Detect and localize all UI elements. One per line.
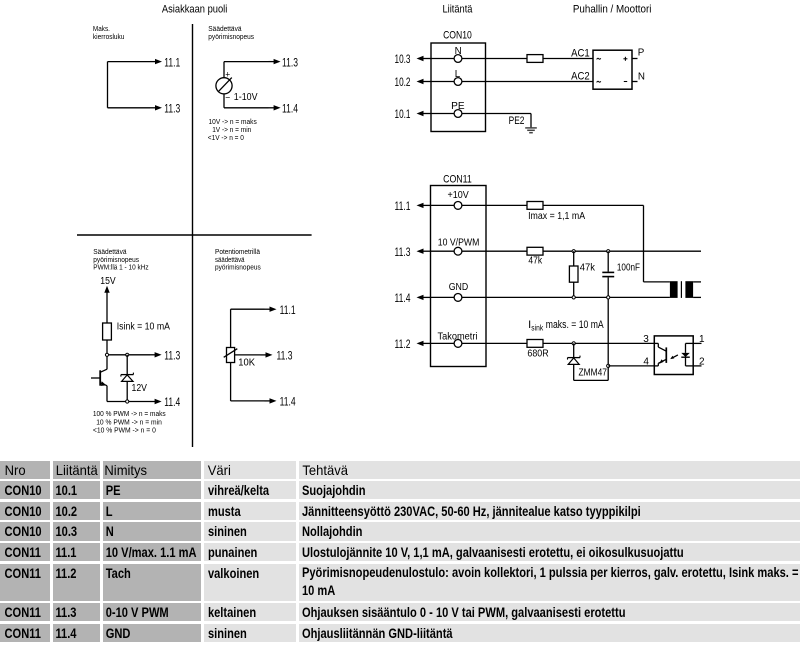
svg-text:11.2: 11.2: [395, 337, 411, 351]
svg-text:+10V: +10V: [448, 190, 470, 201]
svg-text:Imax = 1,1 mA: Imax = 1,1 mA: [528, 210, 585, 222]
svg-text:N: N: [455, 46, 462, 57]
svg-text:GND: GND: [449, 282, 468, 293]
svg-text:10.3: 10.3: [395, 52, 411, 66]
svg-text:Potentiometrillä: Potentiometrillä: [215, 249, 260, 256]
svg-text:10.2: 10.2: [395, 75, 411, 89]
svg-text:maks. = 10 mA: maks. = 10 mA: [546, 319, 604, 331]
svg-text:47k: 47k: [580, 262, 596, 274]
svg-text:11.3: 11.3: [282, 55, 298, 69]
svg-text:Säädettävä: Säädettävä: [208, 26, 241, 33]
svg-text:<10 % PWM -> n = 0: <10 % PWM -> n = 0: [93, 428, 156, 435]
svg-text:1-10V: 1-10V: [234, 91, 258, 103]
svg-text:kierrosluku: kierrosluku: [93, 34, 125, 41]
svg-text:10.1: 10.1: [395, 107, 411, 121]
svg-text:11.4: 11.4: [280, 395, 296, 409]
svg-text:10K: 10K: [238, 357, 255, 369]
svg-text:<1V -> n = 0: <1V -> n = 0: [208, 135, 244, 142]
svg-text:CON10: CON10: [443, 30, 472, 42]
svg-text:11.3: 11.3: [395, 245, 411, 259]
svg-text:AC1: AC1: [571, 48, 590, 60]
svg-text:Takometri: Takometri: [438, 331, 478, 342]
svg-text:11.1: 11.1: [164, 55, 180, 69]
svg-text:PE2: PE2: [509, 115, 525, 127]
svg-text:4: 4: [643, 357, 649, 368]
svg-text:Isink = 10 mA: Isink = 10 mA: [117, 320, 170, 332]
svg-text:Puhallin / Moottori: Puhallin / Moottori: [573, 3, 652, 15]
svg-text:säädettävä: säädettävä: [215, 257, 245, 264]
svg-text:P: P: [638, 48, 645, 59]
svg-text:L: L: [455, 69, 461, 80]
svg-text:Maks.: Maks.: [93, 26, 110, 33]
svg-text:10 % PWM -> n = min: 10 % PWM -> n = min: [96, 419, 162, 426]
svg-text:10 V/PWM: 10 V/PWM: [438, 237, 480, 248]
svg-text:sink: sink: [531, 323, 543, 332]
svg-text:11.1: 11.1: [280, 303, 296, 317]
svg-text:+: +: [225, 69, 230, 79]
svg-text:11.3: 11.3: [277, 349, 293, 363]
svg-text:pyörimisnopeus: pyörimisnopeus: [93, 257, 139, 264]
svg-text:pyörimisnopeus: pyörimisnopeus: [208, 34, 254, 41]
svg-text:680R: 680R: [527, 348, 549, 360]
svg-text:15V: 15V: [100, 276, 116, 287]
svg-text:Säädettävä: Säädettävä: [93, 249, 126, 256]
svg-text:N: N: [638, 71, 645, 82]
svg-text:100 % PWM -> n = maks: 100 % PWM -> n = maks: [93, 411, 166, 418]
svg-text:12V: 12V: [132, 382, 147, 394]
svg-text:PE: PE: [451, 101, 465, 112]
svg-text:11.1: 11.1: [395, 199, 411, 213]
svg-text:3: 3: [643, 334, 649, 345]
svg-text:47k: 47k: [528, 255, 542, 267]
svg-text:11.4: 11.4: [395, 291, 411, 305]
svg-text:pyörimisnopeus: pyörimisnopeus: [215, 265, 261, 272]
svg-text:11.3: 11.3: [164, 349, 180, 363]
svg-text:11.3: 11.3: [164, 102, 180, 116]
svg-text:Asiakkaan puoli: Asiakkaan puoli: [162, 3, 227, 15]
svg-text:11.4: 11.4: [282, 102, 298, 116]
svg-text:PWM:llä 1 - 10 kHz: PWM:llä 1 - 10 kHz: [93, 265, 149, 272]
svg-text:Liitäntä: Liitäntä: [443, 3, 473, 15]
svg-text:CON11: CON11: [443, 173, 472, 185]
svg-text:11.4: 11.4: [164, 395, 180, 409]
svg-text:ZMM47: ZMM47: [579, 366, 608, 378]
svg-text:1V -> n = min: 1V -> n = min: [212, 127, 251, 134]
svg-text:−: −: [225, 92, 230, 102]
svg-text:10V -> n = maks: 10V -> n = maks: [209, 119, 258, 126]
svg-text:AC2: AC2: [571, 71, 590, 83]
svg-text:100nF: 100nF: [617, 262, 640, 274]
